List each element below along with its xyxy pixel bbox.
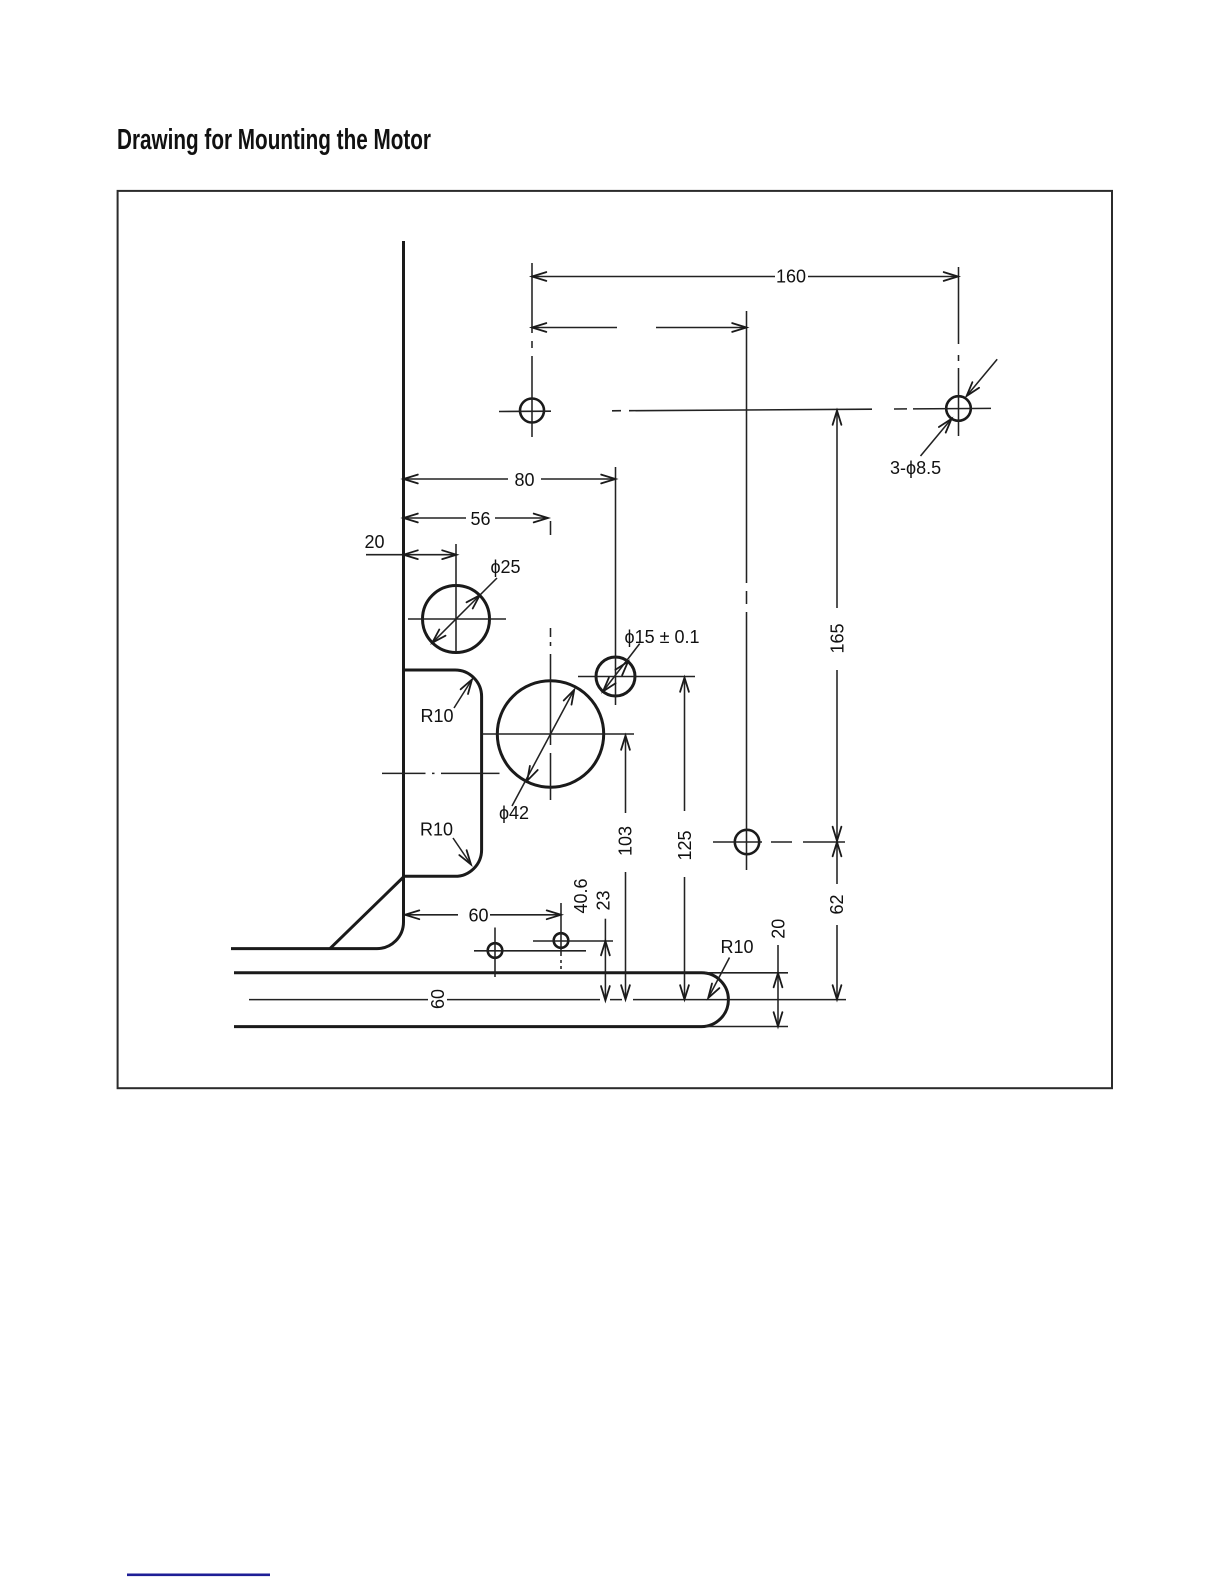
dim line 165 [836, 411, 838, 842]
arrowhead dim 103 down [621, 985, 630, 999]
svg-text:80: 80 [514, 470, 534, 490]
centerline vertical top-left hole [531, 263, 533, 437]
arrowhead phi15 upper [615, 662, 628, 676]
arrowhead dim 125 down [680, 985, 689, 999]
dim line 20 bottom [777, 945, 779, 1027]
arrowhead dim 23 down [601, 986, 610, 1000]
dim line 23 [604, 919, 606, 1001]
arrowhead dim 56 right [534, 514, 548, 523]
svg-text:ϕ42: ϕ42 [499, 803, 529, 823]
hole phi42 [497, 681, 603, 787]
centerline bottom flange [249, 999, 846, 1001]
bend diagonal [330, 877, 404, 949]
diameter line phi25 [432, 578, 497, 643]
blue rule bottom of page [127, 1574, 270, 1577]
svg-text:62: 62 [827, 894, 847, 914]
dim line 56 [404, 517, 549, 519]
arrowhead dim 62 down [833, 985, 842, 999]
arrowhead leader 3-phi8.5 lower [939, 419, 952, 433]
centerline phi42 [482, 521, 634, 800]
arrowhead phi42 upper [564, 690, 575, 705]
arrowhead dim unlabeled left [532, 323, 546, 332]
hole top-left 8.5 [520, 399, 544, 423]
arrowhead dim 20 bottom down [774, 1012, 783, 1026]
leader R10 cap [708, 958, 729, 999]
arrowhead dim 103 up [621, 736, 630, 750]
diameter line phi42 [512, 690, 574, 806]
arrowhead dim unlabeled right [732, 323, 746, 332]
arrowhead leader R10 notch bottom [459, 850, 471, 864]
arrowhead dim 60 right [547, 910, 561, 919]
arrowhead dim 20 top right [442, 550, 456, 559]
notch cutout R10 corners [404, 670, 482, 876]
svg-text:160: 160 [776, 267, 806, 287]
svg-text:56: 56 [470, 509, 490, 529]
part left edge with R10 bottom corner and foot line [231, 241, 404, 949]
arrowhead phi25 upper [467, 595, 480, 608]
svg-text:103: 103 [616, 826, 636, 856]
svg-text:R10: R10 [720, 937, 753, 957]
arrowhead dim 56 left [404, 514, 418, 523]
arrowhead phi15 lower [603, 678, 616, 692]
hole top-right 8.5 [946, 396, 971, 421]
svg-text:60: 60 [468, 905, 488, 925]
dim line 20 top [366, 554, 457, 556]
arrowhead phi25 lower [432, 630, 445, 643]
arrowhead dim 165 down [833, 827, 842, 841]
svg-text:ϕ15 ± 0.1: ϕ15 ± 0.1 [624, 627, 699, 647]
centerline phi25 [408, 544, 506, 652]
arrowhead dim 80 left [404, 475, 418, 484]
arrowhead dim 62 up [833, 842, 842, 856]
dim line 62 [836, 842, 838, 1000]
dim line 60 [405, 914, 561, 916]
svg-text:23: 23 [594, 890, 614, 910]
dim line 160 [532, 276, 958, 278]
centerline small hole B [533, 903, 613, 969]
small hole B [554, 933, 569, 948]
hole phi25 [423, 586, 490, 653]
svg-text:R10: R10 [420, 820, 453, 840]
centerline small hole A [474, 928, 586, 978]
dim line 125 [684, 678, 686, 1000]
svg-text:3-ϕ8.5: 3-ϕ8.5 [890, 458, 941, 478]
svg-text:60: 60 [428, 989, 448, 1009]
leader 3-phi8.5 lower [921, 419, 952, 456]
svg-text:20: 20 [769, 919, 789, 939]
centerline vertical top-right hole [958, 267, 960, 436]
arrowhead leader 3-phi8.5 upper [967, 382, 980, 396]
diameter line phi15 [603, 644, 640, 692]
svg-text:Drawing for Mounting the Motor: Drawing for Mounting the Motor [117, 124, 431, 156]
arrowhead dim 23 up [601, 941, 610, 955]
centerline notch [382, 772, 500, 774]
svg-text:ϕ25: ϕ25 [490, 557, 520, 577]
extension flange bottom edge [706, 1026, 788, 1028]
dim line 80 [404, 478, 616, 480]
bottom flange with R10 end cap [234, 973, 728, 1027]
leader R10 notch bottom [453, 838, 471, 865]
arrowhead dim 80 right [601, 475, 615, 484]
leader 3-phi8.5 upper [967, 359, 998, 396]
centerline horizontal middle hole [713, 841, 845, 843]
arrowhead dim 160 right [944, 272, 958, 281]
arrowhead dim 165 up [833, 411, 842, 425]
arrowhead dim 125 up [680, 678, 689, 692]
arrowhead leader R10 cap [708, 984, 719, 999]
arrowhead dim 160 left [532, 272, 546, 281]
dim line 103 [625, 736, 627, 1000]
svg-text:R10: R10 [420, 706, 453, 726]
arrowhead dim 60 left [405, 910, 419, 919]
hole middle 8.5 [735, 830, 759, 854]
extension flange top edge [705, 972, 788, 974]
arrowhead dim 20 bottom up [774, 973, 783, 987]
svg-text:165: 165 [828, 623, 848, 653]
hole phi15 [596, 657, 635, 696]
arrowhead dim 20 top left [404, 550, 418, 559]
svg-text:125: 125 [675, 830, 695, 860]
dim line unlabeled [532, 327, 747, 329]
arrowhead leader R10 notch top [461, 680, 472, 695]
centerline long vertical to middle hole [746, 311, 748, 870]
border frame of drawing [118, 191, 1112, 1088]
arrowhead phi42 lower [527, 766, 538, 781]
leader R10 notch top [454, 680, 472, 709]
centerline phi15 [578, 467, 695, 705]
centerline horizontal through top holes [499, 408, 991, 411]
svg-text:40.6: 40.6 [571, 878, 591, 913]
small hole A [488, 943, 503, 958]
svg-text:20: 20 [364, 532, 384, 552]
